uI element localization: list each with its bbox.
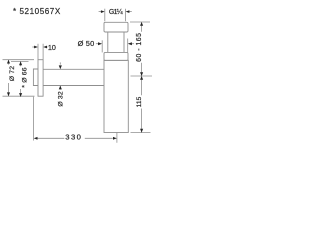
dimension 330 bbox=[34, 97, 117, 143]
wire: horizontal outlet pipe top bbox=[43, 68, 104, 70]
wire: horizontal outlet pipe bottom bbox=[43, 85, 104, 87]
svg-text:60 - 165: 60 - 165 bbox=[136, 33, 143, 62]
dimension diameter 72 bbox=[3, 60, 35, 96]
svg-text:10: 10 bbox=[48, 43, 56, 52]
wall escutcheon bbox=[38, 60, 43, 96]
svg-text:Ø 50: Ø 50 bbox=[78, 39, 95, 48]
wall pipe stub bbox=[33, 69, 38, 86]
trap body: top union nut bbox=[104, 22, 128, 32]
trap body: lower union nut bbox=[104, 52, 128, 60]
dimension 115 bbox=[131, 76, 151, 133]
dimension diameter 32 bbox=[57, 62, 64, 106]
svg-text:Ø 32: Ø 32 bbox=[57, 91, 64, 107]
dimension diameter 66 bbox=[11, 61, 29, 97]
dimension G1 1/4 bbox=[99, 9, 132, 22]
svg-text:Ø 72: Ø 72 bbox=[9, 66, 16, 82]
trap body: adjustable tube bbox=[107, 32, 109, 52]
svg-text:G1¼: G1¼ bbox=[109, 9, 123, 16]
dimension 60 - 165 bbox=[130, 22, 152, 76]
dimension diameter 50 bbox=[78, 39, 134, 53]
svg-text:330: 330 bbox=[65, 133, 82, 142]
svg-text:* Ø 66: * Ø 66 bbox=[22, 67, 29, 87]
trap body: bottle cup bbox=[104, 60, 128, 132]
dimension 10 bbox=[32, 43, 56, 60]
svg-text:* 5210567X: * 5210567X bbox=[13, 7, 61, 16]
svg-text:115: 115 bbox=[136, 96, 143, 107]
